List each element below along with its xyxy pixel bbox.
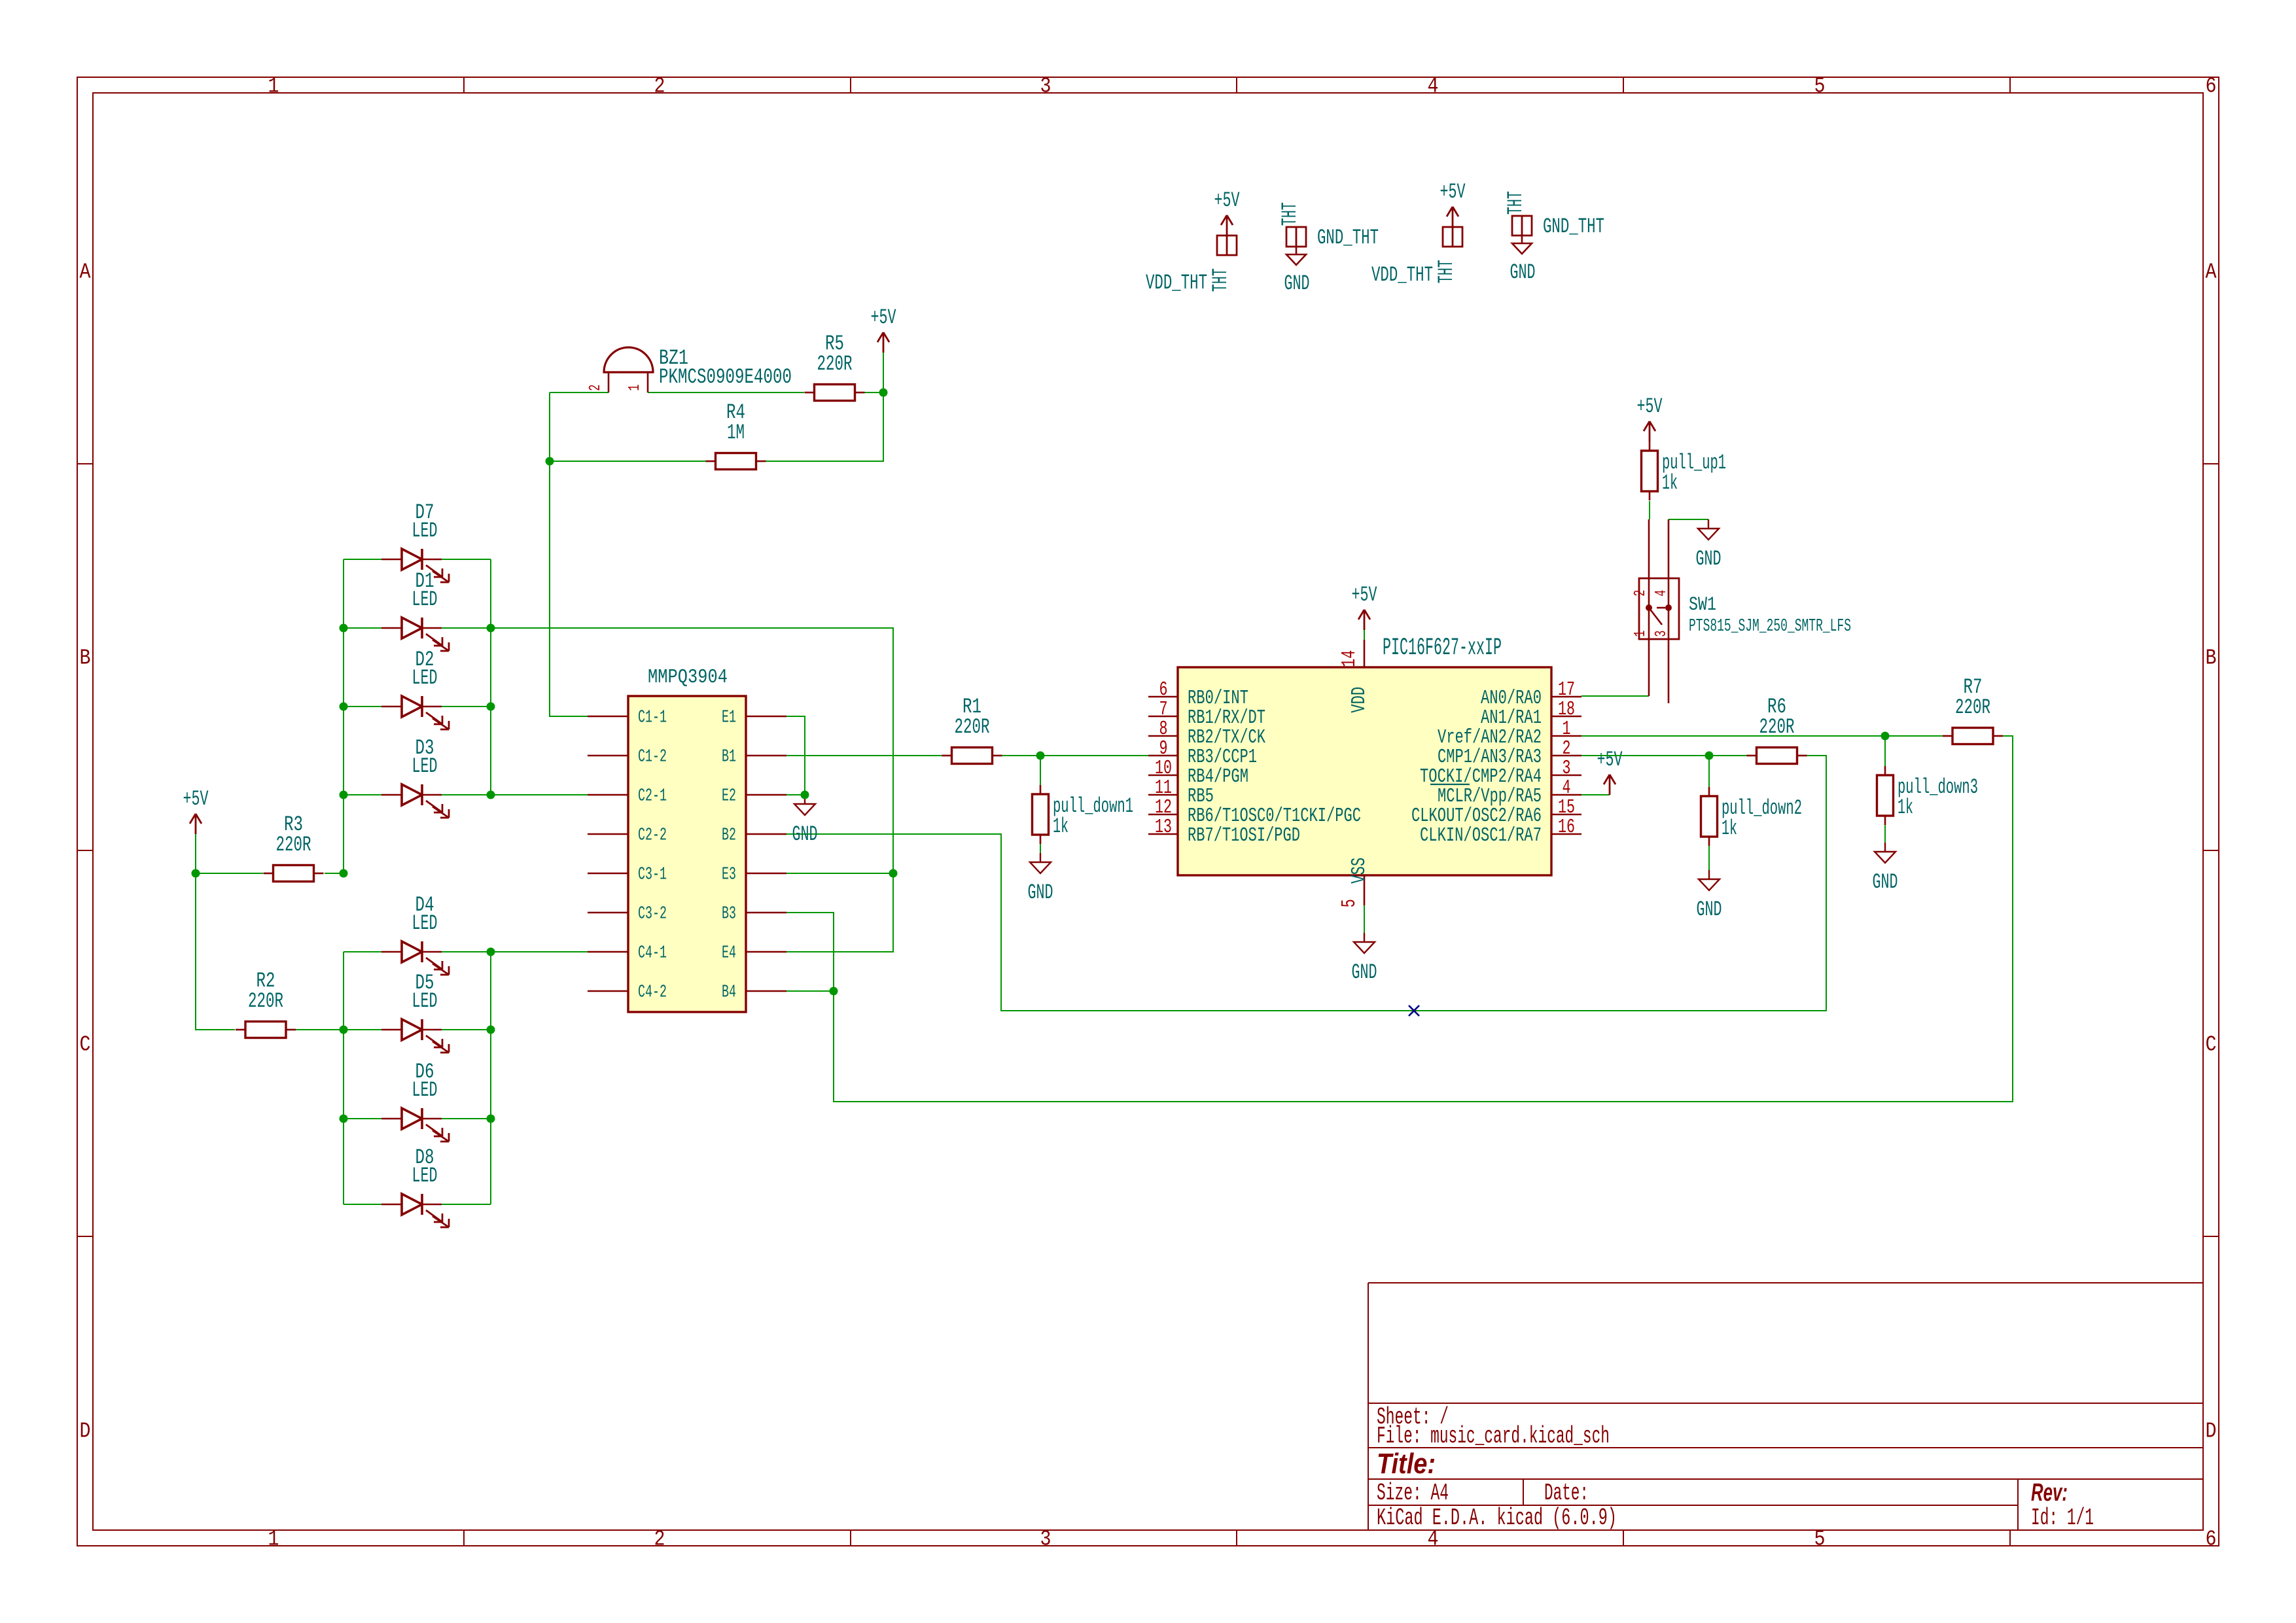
pin 9 (RB3/CCP1) bbox=[1148, 755, 1178, 757]
svg-text:C2-1: C2-1 bbox=[638, 787, 667, 807]
wire junction to pull_down2 bbox=[1708, 756, 1710, 795]
pin 15 (CLKOUT/OSC2/RA6) bbox=[1551, 814, 1581, 816]
svg-text:SW1: SW1 bbox=[1689, 594, 1716, 616]
wire R4 left to vertical bbox=[550, 461, 706, 462]
svg-text:E2: E2 bbox=[722, 787, 736, 807]
MCLR overline bbox=[1430, 784, 1470, 785]
svg-text:1: 1 bbox=[1632, 631, 1650, 637]
wire +5V to R3 and down to R2 bbox=[196, 834, 263, 873]
wire junction to pull_down1 bbox=[1040, 756, 1041, 794]
pin 5 (VSS) bbox=[1364, 875, 1366, 905]
svg-text:LED: LED bbox=[412, 587, 438, 612]
resistor pull_up1 1k bbox=[1642, 442, 1727, 500]
wire junction down to R4 bbox=[766, 393, 883, 461]
wire R3 to LED col1 bbox=[325, 873, 344, 874]
wire VSS pin5 bbox=[1364, 905, 1365, 933]
svg-text:KiCad E.D.A. kicad (6.0.9): KiCad E.D.A. kicad (6.0.9) bbox=[1377, 1505, 1617, 1531]
svg-text:Date:: Date: bbox=[1544, 1480, 1589, 1507]
microcontroller U2 PIC16F627-xxIP bbox=[1148, 635, 1581, 907]
wire D4 row bbox=[344, 951, 381, 952]
wire LED col2 left vertical bbox=[343, 952, 344, 1204]
power +5V at R5 bbox=[871, 305, 897, 353]
svg-text:PTS815_SJM_250_SMTR_LFS: PTS815_SJM_250_SMTR_LFS bbox=[1689, 617, 1851, 637]
pin B4 bbox=[746, 990, 786, 992]
wire R1 to PIC pin9 bbox=[1002, 755, 1148, 756]
svg-text:GND: GND bbox=[1284, 271, 1310, 296]
pin 10 (RB4/PGM) bbox=[1148, 775, 1178, 777]
svg-text:MMPQ3904: MMPQ3904 bbox=[648, 666, 728, 689]
svg-text:2: 2 bbox=[654, 1527, 665, 1551]
power +5V at MCLR bbox=[1597, 748, 1623, 795]
wire SW1 pin4 to GND bbox=[1669, 519, 1708, 520]
wire D1 cathode to E3/E4 vertical bbox=[491, 628, 893, 952]
resistor R6 220R bbox=[1747, 695, 1807, 763]
wire VDD pin14 bbox=[1364, 630, 1365, 640]
pin 4 (MCLR/Vpp/RA5) bbox=[1551, 794, 1581, 796]
pin C4-2 bbox=[588, 990, 628, 992]
svg-text:THT: THT bbox=[1209, 268, 1233, 292]
ground pull_down1 bbox=[1028, 853, 1053, 905]
junction E3 bbox=[889, 869, 898, 878]
svg-text:C3-2: C3-2 bbox=[638, 905, 667, 924]
switch contacts bbox=[1646, 604, 1652, 611]
svg-text:B: B bbox=[2206, 646, 2217, 670]
svg-text:2: 2 bbox=[587, 385, 605, 391]
resistor pull_down1 1k bbox=[1033, 785, 1134, 844]
wire D1 row bbox=[344, 627, 381, 629]
svg-text:2: 2 bbox=[1632, 590, 1650, 597]
junction D4 right bbox=[487, 948, 495, 956]
wire R5 to +5V junction bbox=[862, 392, 883, 393]
junction B4 bbox=[830, 987, 838, 996]
svg-text:C4-2: C4-2 bbox=[638, 983, 667, 1003]
resistor pull_down2 1k bbox=[1701, 787, 1803, 846]
svg-text:220R: 220R bbox=[817, 352, 853, 376]
pin 11 (RB5) bbox=[1148, 794, 1178, 796]
junction D5 left bbox=[340, 1026, 348, 1034]
pin 2 (CMP1/AN3/RA3) bbox=[1551, 755, 1581, 757]
ground at VSS bbox=[1352, 933, 1377, 985]
svg-text:LED: LED bbox=[412, 989, 438, 1013]
pin B1 bbox=[746, 755, 786, 757]
switch SW1 PTS815_SJM_250_SMTR_LFS bbox=[1632, 519, 1851, 703]
resistor R1 220R bbox=[942, 695, 1002, 763]
junction D6 right bbox=[487, 1115, 495, 1123]
svg-text:CLKIN/OSC1/RA7: CLKIN/OSC1/RA7 bbox=[1420, 824, 1542, 847]
junction R4 left bbox=[546, 457, 554, 466]
power flag GND_THT #2 bbox=[1504, 191, 1604, 285]
svg-text:1: 1 bbox=[268, 74, 279, 98]
pin C4-1 bbox=[588, 951, 628, 953]
wire LED col1 right vertical bbox=[490, 559, 491, 795]
svg-text:PIC16F627-xxIP: PIC16F627-xxIP bbox=[1383, 635, 1502, 662]
wire pin1 RA2 to R7 bbox=[1581, 735, 1943, 737]
svg-text:+5V: +5V bbox=[871, 305, 897, 330]
pin 13 (RB7/T1OSI/PGD) bbox=[1148, 833, 1178, 835]
svg-text:VSS: VSS bbox=[1348, 858, 1371, 884]
resistor R2 220R bbox=[236, 969, 296, 1038]
svg-text:D: D bbox=[80, 1419, 91, 1443]
pin 3 (TOCKI/CMP2/RA4) bbox=[1551, 775, 1581, 777]
svg-text:Size: A4: Size: A4 bbox=[1377, 1480, 1449, 1507]
wire D5 row bbox=[344, 1029, 381, 1030]
svg-text:1: 1 bbox=[268, 1527, 279, 1551]
svg-text:+5V: +5V bbox=[1440, 180, 1466, 204]
svg-text:220R: 220R bbox=[276, 833, 311, 857]
junction R5/+5V bbox=[879, 389, 888, 397]
svg-text:1k: 1k bbox=[1722, 816, 1737, 841]
svg-text:E4: E4 bbox=[722, 944, 736, 964]
junction +5V/R3 bbox=[192, 869, 200, 878]
junction D3 right bbox=[487, 791, 495, 799]
wire D2 row bbox=[344, 706, 381, 707]
svg-text:220R: 220R bbox=[1955, 695, 1990, 720]
pin 18 (AN1/RA1) bbox=[1551, 716, 1581, 718]
LED D3 bbox=[381, 736, 449, 818]
svg-text:220R: 220R bbox=[955, 715, 990, 739]
wire B1 to R1 bbox=[786, 755, 942, 756]
power +5V at VDD bbox=[1352, 583, 1378, 630]
pin C3-1 bbox=[588, 873, 628, 875]
pin E3 bbox=[746, 873, 786, 875]
svg-text:B2: B2 bbox=[722, 826, 736, 846]
svg-text:GND: GND bbox=[1873, 870, 1898, 894]
LED D7 bbox=[381, 500, 449, 582]
pin 1 bbox=[1648, 610, 1650, 696]
pin 14 (VDD) bbox=[1364, 640, 1366, 667]
resistor R5 220R bbox=[805, 332, 865, 400]
svg-text:C1-1: C1-1 bbox=[638, 708, 667, 728]
svg-text:13: 13 bbox=[1155, 816, 1172, 839]
wire B2 to R6 bbox=[786, 756, 1826, 1011]
junction D6 left bbox=[340, 1115, 348, 1123]
wire left vertical BZ1 to C1-1 bbox=[550, 393, 588, 716]
wire D6 row bbox=[344, 1118, 381, 1119]
wire BZ1 pin2 to left vertical bbox=[550, 392, 609, 393]
LED D8 bbox=[381, 1145, 449, 1227]
wire D7 row bbox=[344, 559, 381, 560]
pin 1 (Vref/AN2/RA2) bbox=[1551, 735, 1581, 737]
pin C2-1 bbox=[588, 794, 628, 796]
resistor R4 1M bbox=[706, 400, 766, 469]
pin 8 (RB2/TX/CK) bbox=[1148, 735, 1178, 737]
wire D8 row bbox=[344, 1204, 381, 1205]
wire LED col2 right vertical bbox=[490, 952, 491, 1204]
svg-text:VDD_THT: VDD_THT bbox=[1371, 263, 1433, 287]
svg-text:THT: THT bbox=[1504, 191, 1528, 215]
pin E2 bbox=[746, 794, 786, 796]
svg-text:PKMCS0909E4000: PKMCS0909E4000 bbox=[659, 365, 792, 389]
svg-text:GND: GND bbox=[1028, 881, 1053, 905]
wire pull_up1 to SW1 pin2 bbox=[1649, 501, 1650, 519]
junction D1 right bbox=[487, 624, 495, 633]
ground at E1/E2 bbox=[792, 795, 818, 846]
svg-text:6: 6 bbox=[2206, 74, 2217, 98]
svg-text:A: A bbox=[2206, 260, 2217, 284]
ground pull_down3 bbox=[1873, 843, 1898, 894]
resistor pull_down3 1k bbox=[1877, 766, 1979, 825]
resistor R3 220R bbox=[264, 812, 324, 881]
wire +5V drop bbox=[883, 353, 884, 393]
wire B3/B4 to R7 loop bbox=[786, 736, 2013, 1102]
junction D2 right bbox=[487, 703, 495, 711]
LED D5 bbox=[381, 971, 449, 1053]
svg-text:1M: 1M bbox=[727, 421, 745, 445]
svg-text:B1: B1 bbox=[722, 748, 736, 767]
svg-text:VDD: VDD bbox=[1348, 687, 1371, 713]
svg-text:GND_THT: GND_THT bbox=[1317, 226, 1379, 250]
svg-text:220R: 220R bbox=[248, 989, 283, 1013]
svg-text:B3: B3 bbox=[722, 905, 736, 924]
wire R2 to LED col2 bbox=[296, 1029, 344, 1030]
wire pull_down3 to GND bbox=[1884, 825, 1886, 843]
no-connect X mark bbox=[1409, 1005, 1419, 1016]
svg-text:GND: GND bbox=[1352, 960, 1377, 985]
svg-text:4: 4 bbox=[1653, 590, 1670, 597]
svg-text:E3: E3 bbox=[722, 865, 736, 885]
wire LED col1 left vertical bbox=[343, 559, 344, 873]
wire E1/E2 to GND bbox=[786, 716, 805, 795]
svg-text:GND: GND bbox=[1510, 260, 1536, 285]
LED D4 bbox=[381, 893, 449, 975]
pin C1-2 bbox=[588, 755, 628, 757]
junction R7/pull_down3 bbox=[1881, 732, 1890, 741]
svg-text:2: 2 bbox=[654, 74, 665, 98]
power flag VDD_THT #1 bbox=[1146, 188, 1240, 295]
wire junction to pull_down3 bbox=[1884, 736, 1886, 775]
junction D3 left bbox=[340, 791, 348, 799]
svg-text:C: C bbox=[2206, 1032, 2217, 1056]
pin 2 bbox=[1648, 519, 1650, 605]
svg-text:GND: GND bbox=[1697, 898, 1722, 922]
svg-text:THT: THT bbox=[1434, 260, 1458, 283]
wire D3 row bbox=[344, 794, 381, 795]
svg-text:+5V: +5V bbox=[1597, 748, 1623, 772]
svg-text:THT: THT bbox=[1278, 202, 1302, 226]
svg-text:VDD_THT: VDD_THT bbox=[1146, 271, 1207, 295]
junction R1/pull_down1 bbox=[1036, 752, 1045, 760]
wire pin4 MCLR to +5V bbox=[1581, 794, 1610, 795]
svg-text:5: 5 bbox=[1338, 899, 1361, 907]
pin 4 bbox=[1668, 519, 1670, 605]
svg-text:1: 1 bbox=[626, 385, 644, 391]
svg-text:16: 16 bbox=[1558, 816, 1575, 839]
svg-text:+5V: +5V bbox=[183, 787, 209, 811]
svg-text:C: C bbox=[80, 1032, 91, 1056]
svg-text:LED: LED bbox=[412, 519, 438, 543]
power flag VDD_THT #2 bbox=[1371, 180, 1466, 287]
power flag GND_THT #1 bbox=[1278, 202, 1379, 296]
svg-text:C2-2: C2-2 bbox=[638, 826, 667, 846]
svg-text:3: 3 bbox=[1653, 631, 1670, 637]
pin E4 bbox=[746, 951, 786, 953]
junction D5 right bbox=[487, 1026, 495, 1034]
svg-text:D: D bbox=[2206, 1419, 2217, 1443]
svg-text:1k: 1k bbox=[1053, 814, 1069, 839]
ground pull_down2 bbox=[1697, 870, 1722, 922]
svg-text:LED: LED bbox=[412, 1078, 438, 1102]
svg-text:5: 5 bbox=[1814, 74, 1826, 98]
pin E1 bbox=[746, 716, 786, 718]
svg-text:1k: 1k bbox=[1898, 795, 1913, 820]
svg-text:B4: B4 bbox=[722, 983, 736, 1003]
junction D2 left bbox=[340, 703, 348, 711]
pin C3-2 bbox=[588, 912, 628, 914]
LED D1 bbox=[381, 569, 449, 651]
pin C1-1 bbox=[588, 716, 628, 718]
LED D6 bbox=[381, 1060, 449, 1142]
transistor array U1 MMPQ3904 bbox=[588, 666, 786, 1012]
pin 17 (AN0/RA0) bbox=[1551, 696, 1581, 698]
pin 16 (CLKIN/OSC1/RA7) bbox=[1551, 833, 1581, 835]
svg-text:5: 5 bbox=[1814, 1527, 1826, 1551]
svg-text:Rev:: Rev: bbox=[2031, 1479, 2068, 1507]
wire pin2 RA3 to R6 bbox=[1581, 755, 1747, 756]
svg-text:4: 4 bbox=[1428, 74, 1439, 98]
svg-text:LED: LED bbox=[412, 1164, 438, 1188]
wire BZ1 pin1 to R5 bbox=[648, 392, 804, 393]
pin 12 (RB6/T1OSC0/T1CKI/PGC) bbox=[1148, 814, 1178, 816]
svg-text:+5V: +5V bbox=[1352, 583, 1378, 607]
svg-text:1k: 1k bbox=[1662, 471, 1678, 495]
power +5V left bbox=[183, 787, 209, 834]
svg-text:GND: GND bbox=[792, 822, 818, 846]
buzzer BZ1 PKMCS0909E4000 bbox=[587, 346, 792, 393]
svg-text:6: 6 bbox=[2206, 1527, 2217, 1551]
svg-text:14: 14 bbox=[1338, 650, 1361, 667]
svg-text:3: 3 bbox=[1040, 1527, 1051, 1551]
svg-text:C3-1: C3-1 bbox=[638, 865, 667, 885]
svg-text:B: B bbox=[80, 646, 91, 670]
pin 7 (RB1/RX/DT) bbox=[1148, 716, 1178, 718]
svg-text:Title:: Title: bbox=[1377, 1448, 1436, 1480]
pin C2-2 bbox=[588, 833, 628, 835]
power +5V at pull_up1 bbox=[1637, 394, 1663, 442]
wire pull_down2 to GND bbox=[1708, 846, 1710, 870]
wire E3 to vertical bbox=[786, 873, 893, 874]
wire pin17 RA0 to SW1 bbox=[1581, 695, 1649, 697]
svg-text:LED: LED bbox=[412, 911, 438, 935]
title block bbox=[1368, 1283, 2203, 1531]
svg-text:RB7/T1OSI/PGD: RB7/T1OSI/PGD bbox=[1188, 824, 1300, 847]
resistor R7 220R bbox=[1943, 675, 2003, 744]
svg-text:A: A bbox=[80, 260, 91, 284]
wire pull_down1 to GND bbox=[1040, 844, 1041, 853]
svg-text:+5V: +5V bbox=[1637, 394, 1663, 419]
pin B2 bbox=[746, 833, 786, 835]
LED D2 bbox=[381, 648, 449, 729]
svg-text:+5V: +5V bbox=[1214, 188, 1241, 213]
ground at SW1 pin4 bbox=[1696, 519, 1722, 571]
svg-text:LED: LED bbox=[412, 666, 438, 690]
junction R6/pull_down2 bbox=[1705, 752, 1714, 760]
svg-text:C1-2: C1-2 bbox=[638, 748, 667, 767]
svg-text:LED: LED bbox=[412, 754, 438, 778]
svg-text:GND_THT: GND_THT bbox=[1543, 215, 1604, 239]
pin 6 (RB0/INT) bbox=[1148, 696, 1178, 698]
svg-text:File: music_card.kicad_sch: File: music_card.kicad_sch bbox=[1377, 1423, 1610, 1450]
pin 3 bbox=[1668, 610, 1670, 703]
svg-text:E1: E1 bbox=[722, 708, 736, 728]
junction D1 left bbox=[340, 624, 348, 633]
junction R3 right bbox=[340, 869, 348, 878]
svg-text:Id: 1/1: Id: 1/1 bbox=[2031, 1505, 2094, 1531]
svg-text:C4-1: C4-1 bbox=[638, 944, 667, 964]
junction E2 GND bbox=[801, 791, 809, 799]
wire B4 bbox=[786, 990, 834, 992]
pin B3 bbox=[746, 912, 786, 914]
svg-text:GND: GND bbox=[1696, 547, 1722, 571]
svg-text:3: 3 bbox=[1040, 74, 1051, 98]
